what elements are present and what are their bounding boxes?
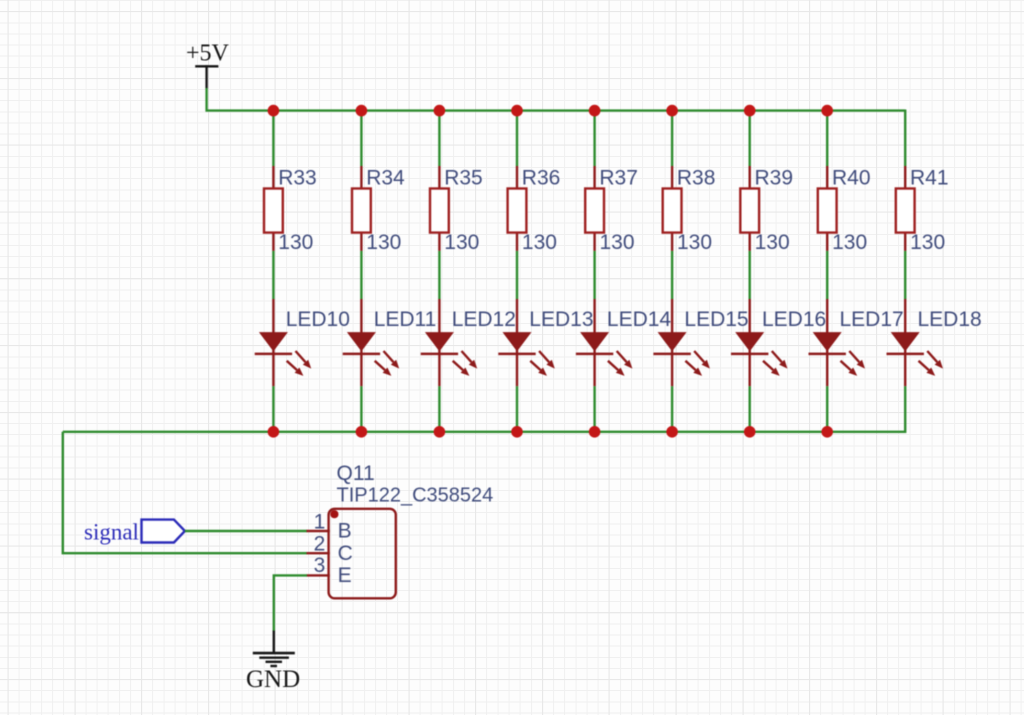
- svg-text:R36: R36: [522, 167, 561, 190]
- svg-text:LED13: LED13: [529, 308, 593, 331]
- svg-text:130: 130: [755, 231, 790, 254]
- junction node on top bus col 4: [511, 105, 523, 117]
- svg-text:GND: GND: [246, 666, 300, 693]
- wire R40 to LED17: [826, 251, 828, 299]
- power flag +5V: [186, 41, 230, 89]
- svg-text:LED18: LED18: [918, 308, 982, 331]
- wire bottom bus to Q11 collector: [63, 432, 307, 553]
- wire LED15 to bottom bus: [671, 386, 673, 433]
- wire R39 to LED16: [749, 251, 751, 299]
- svg-text:130: 130: [832, 231, 867, 254]
- wire top bus to R41: [904, 110, 906, 167]
- LED LED11: [343, 299, 437, 386]
- svg-text:LED16: LED16: [762, 308, 826, 331]
- wire top bus to R36: [516, 110, 518, 167]
- svg-text:R35: R35: [444, 167, 483, 190]
- LED LED16: [731, 299, 826, 386]
- wire LED18 to bottom bus: [904, 386, 906, 433]
- wire Q11 emitter to ground: [274, 575, 307, 631]
- junction node on top bus col 2: [356, 105, 368, 117]
- svg-text:C: C: [338, 542, 353, 565]
- LED LED13: [498, 299, 593, 386]
- LED LED12: [421, 299, 516, 386]
- LED LED17: [809, 299, 904, 386]
- svg-text:R34: R34: [366, 167, 405, 190]
- junction node on top bus col 8: [821, 105, 833, 117]
- wire bottom bus: [63, 431, 905, 433]
- wire R38 to LED15: [671, 251, 673, 299]
- svg-text:LED11: LED11: [374, 308, 437, 331]
- junction node on bottom bus col 5: [589, 426, 601, 438]
- wire R41 to LED18: [904, 251, 906, 299]
- wire LED17 to bottom bus: [826, 386, 828, 433]
- wire top bus to R39: [749, 110, 751, 167]
- junction node on bottom bus col 8: [821, 426, 833, 438]
- LED LED10: [255, 299, 350, 386]
- svg-text:1: 1: [314, 511, 326, 534]
- junction node on top bus col 5: [589, 105, 601, 117]
- wire LED11 to bottom bus: [360, 386, 362, 433]
- wire LED16 to bottom bus: [749, 386, 751, 433]
- junction node on bottom bus col 6: [666, 426, 678, 438]
- svg-text:LED10: LED10: [286, 308, 350, 331]
- LED LED14: [576, 299, 672, 386]
- resistor R41 130: [896, 166, 949, 254]
- svg-text:130: 130: [910, 231, 945, 254]
- wire top bus to R35: [438, 110, 440, 167]
- svg-text:LED14: LED14: [607, 308, 672, 331]
- junction node on bottom bus col 7: [744, 426, 756, 438]
- resistor R39 130: [740, 166, 793, 254]
- svg-text:E: E: [338, 564, 352, 587]
- junction node on bottom bus col 2: [356, 426, 368, 438]
- svg-text:R40: R40: [832, 167, 871, 190]
- resistor R33 130: [264, 166, 317, 254]
- svg-text:Q11: Q11: [337, 462, 375, 485]
- wire LED12 to bottom bus: [438, 386, 440, 433]
- resistor R38 130: [663, 166, 716, 254]
- svg-text:130: 130: [444, 231, 479, 254]
- svg-text:TIP122_C358524: TIP122_C358524: [337, 484, 494, 506]
- wire R35 to LED12: [438, 251, 440, 299]
- junction node on top bus col 6: [666, 105, 678, 117]
- wire top bus to R34: [360, 110, 362, 167]
- svg-text:+5V: +5V: [186, 41, 230, 67]
- svg-text:130: 130: [366, 231, 401, 254]
- LED LED18: [887, 299, 982, 386]
- junction node on bottom bus col 1: [268, 426, 280, 438]
- port signal: [84, 519, 185, 544]
- wire LED14 to bottom bus: [593, 386, 595, 433]
- svg-text:2: 2: [314, 533, 326, 556]
- svg-text:130: 130: [677, 231, 712, 254]
- svg-text:R38: R38: [677, 167, 716, 190]
- svg-text:R39: R39: [755, 167, 794, 190]
- wire +5V to top bus: [207, 88, 906, 111]
- resistor R34 130: [352, 166, 405, 254]
- svg-text:LED17: LED17: [840, 308, 904, 331]
- wire LED10 to bottom bus: [272, 386, 274, 433]
- svg-text:R41: R41: [910, 167, 949, 190]
- resistor R37 130: [585, 166, 638, 254]
- svg-text:signal: signal: [84, 519, 139, 544]
- svg-text:130: 130: [278, 231, 313, 254]
- resistor R40 130: [818, 166, 871, 254]
- wire top bus to R33: [272, 110, 274, 167]
- junction node on top bus col 3: [434, 105, 446, 117]
- wire R33 to LED10: [272, 251, 274, 299]
- junction node on top bus col 7: [744, 105, 756, 117]
- wire top bus to R38: [671, 110, 673, 167]
- svg-text:130: 130: [522, 231, 557, 254]
- transistor Q11 TIP122_C358524: [307, 462, 494, 598]
- ground GND: [246, 631, 300, 693]
- svg-text:3: 3: [314, 554, 326, 577]
- svg-text:R37: R37: [599, 167, 638, 190]
- svg-text:R33: R33: [278, 167, 317, 190]
- svg-text:B: B: [338, 519, 352, 542]
- junction node on bottom bus col 4: [511, 426, 523, 438]
- junction node on top bus col 1: [268, 105, 280, 117]
- LED LED15: [653, 299, 748, 386]
- svg-text:LED12: LED12: [452, 308, 516, 331]
- wire top bus to R37: [593, 110, 595, 167]
- wire R34 to LED11: [360, 251, 362, 299]
- svg-text:LED15: LED15: [684, 308, 748, 331]
- wire R36 to LED13: [516, 251, 518, 299]
- svg-text:130: 130: [600, 231, 635, 254]
- junction node on bottom bus col 3: [434, 426, 446, 438]
- wire signal to Q11 base: [185, 530, 307, 532]
- wire top bus to R40: [826, 110, 828, 167]
- wire LED13 to bottom bus: [516, 386, 518, 433]
- resistor R35 130: [430, 166, 483, 254]
- resistor R36 130: [508, 166, 561, 254]
- wire R37 to LED14: [593, 251, 595, 299]
